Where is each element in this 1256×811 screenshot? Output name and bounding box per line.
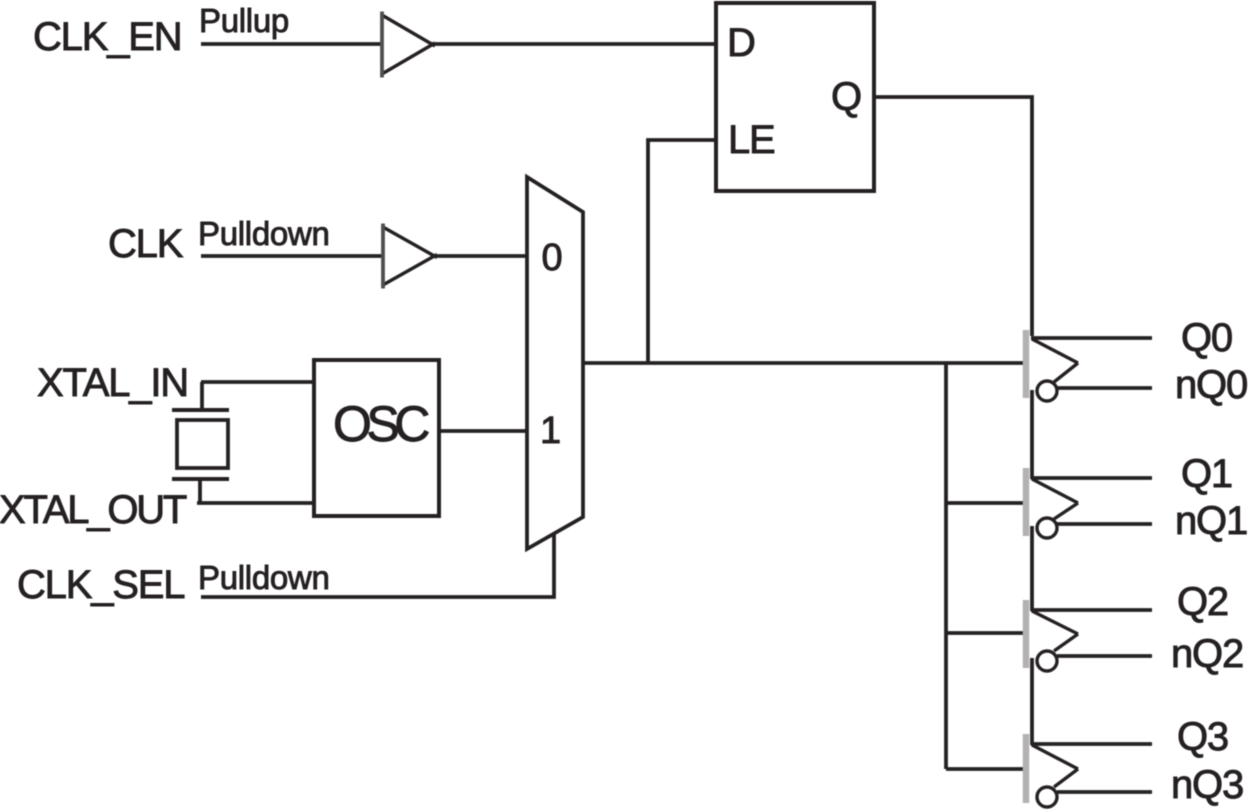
wire XTAL_IN to OSC xyxy=(201,380,314,384)
svg-text:Q0: Q0 xyxy=(1181,316,1232,360)
wire branch to buffer Q3 xyxy=(946,767,1023,771)
svg-text:Q3: Q3 xyxy=(1177,715,1228,759)
svg-text:nQ3: nQ3 xyxy=(1171,763,1243,807)
wire branch to buffer Q2 xyxy=(946,631,1023,635)
svg-text:nQ2: nQ2 xyxy=(1171,632,1243,676)
output buffer Q2 xyxy=(1026,600,1152,671)
svg-text:1: 1 xyxy=(540,410,561,452)
svg-text:Q: Q xyxy=(831,75,861,119)
svg-text:LE: LE xyxy=(728,118,775,162)
svg-text:Q2: Q2 xyxy=(1177,580,1228,624)
svg-text:Pullup: Pullup xyxy=(199,2,289,39)
svg-text:0: 0 xyxy=(542,237,563,279)
svg-text:XTAL_IN: XTAL_IN xyxy=(37,361,188,405)
wire distribution rail xyxy=(944,363,948,769)
svg-text:CLK_SEL: CLK_SEL xyxy=(17,563,184,607)
wire OSC to mux input 1 xyxy=(439,429,527,433)
svg-text:CLK: CLK xyxy=(108,222,184,266)
output buffer Q1 xyxy=(1026,468,1152,538)
wire Q output to enable rail xyxy=(874,97,1032,336)
svg-text:Q1: Q1 xyxy=(1181,452,1232,496)
wire enable rail segment 2 xyxy=(1030,526,1034,611)
wire branch to buffer Q1 xyxy=(946,501,1023,505)
svg-text:CLK_EN: CLK_EN xyxy=(33,15,181,59)
output buffer Q0 xyxy=(1026,330,1152,401)
svg-text:nQ0: nQ0 xyxy=(1175,363,1247,407)
latch U2 (D/LE latch) xyxy=(716,3,874,191)
svg-text:nQ1: nQ1 xyxy=(1175,499,1247,543)
wire CLK_SEL to mux select xyxy=(201,533,554,597)
svg-text:D: D xyxy=(727,21,755,65)
svg-text:Pulldown: Pulldown xyxy=(198,559,330,596)
crystal Y1 xyxy=(172,382,229,503)
output buffer Q3 xyxy=(1026,734,1152,807)
svg-text:OSC: OSC xyxy=(333,396,429,452)
mux U5 (2:1 clock mux) xyxy=(527,177,583,549)
buffer U3 (CLK input buffer) xyxy=(382,224,437,289)
wire enable rail segment 3 xyxy=(1030,658,1034,745)
wire enable rail segment 1 xyxy=(1030,390,1034,479)
wire XTAL_OUT to OSC xyxy=(197,501,314,505)
wire mux output bus xyxy=(583,361,1023,365)
wire LE input xyxy=(648,140,716,363)
wire CLK to mux input 0 xyxy=(201,254,527,258)
oscillator U4 (OSC block) xyxy=(314,360,439,516)
buffer U1 (CLK_EN input buffer) xyxy=(381,12,435,78)
svg-text:XTAL_OUT: XTAL_OUT xyxy=(0,488,187,532)
wire CLK_EN to D input xyxy=(201,42,716,46)
svg-text:Pulldown: Pulldown xyxy=(198,215,330,252)
